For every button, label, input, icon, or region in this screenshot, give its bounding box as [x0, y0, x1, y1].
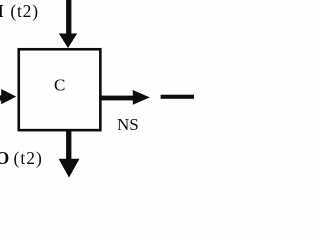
- svg-text:I: I: [0, 1, 4, 21]
- svg-text:NS: NS: [117, 115, 139, 134]
- svg-text:(t2): (t2): [14, 148, 43, 168]
- svg-text:(t2): (t2): [10, 1, 38, 21]
- svg-text:O: O: [0, 148, 9, 168]
- svg-text:C: C: [54, 76, 65, 95]
